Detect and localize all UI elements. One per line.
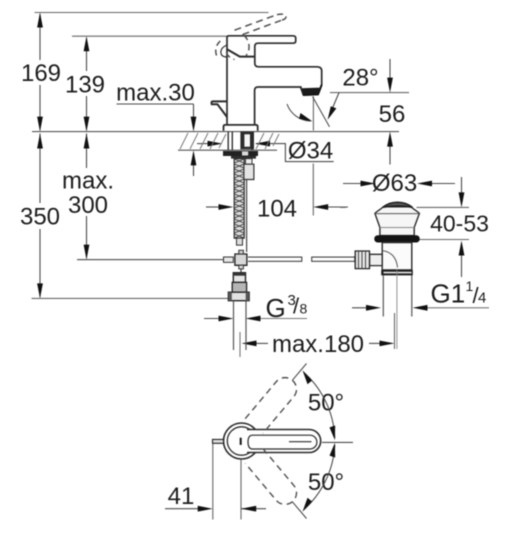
arm inner line [248,435,317,449]
svg-text:max.30: max.30 [116,80,195,107]
28deg leader diagonal [330,93,339,114]
nut shade left [228,292,231,301]
svg-text:8: 8 [300,301,308,317]
body-port intersection curve [382,251,397,268]
arrow max300 top [84,134,90,149]
threaded rod hatch [234,159,244,238]
hub inner circle [227,427,255,455]
joint screw top [239,250,244,254]
side port neck [370,254,383,265]
connector top cylinder [233,273,245,283]
arrow 50up-bottom [330,426,336,441]
horseshoe washer gap [242,152,248,156]
faucet pipe centerline lower ext [239,332,241,357]
arrow 104 left [219,204,234,210]
svg-text:350: 350 [20,204,60,231]
pop-up knob on left [211,101,227,117]
40-53 lower ref line [417,239,470,241]
arrow max30 top [191,117,197,132]
arrow 41 left [198,506,213,512]
41 ext line right [240,460,242,520]
arrow O34 left [208,141,223,147]
joint-connector stub [240,269,242,273]
supply pipe walls [234,301,247,350]
water stream vertical ref [312,96,314,130]
arrow 50low-bottom [303,498,313,512]
arrow 50low-top [330,443,336,458]
pop-up rod upper clamp [246,159,253,165]
arrow 350 top [37,134,43,149]
shank outline [228,132,252,151]
connector hex nut [228,292,249,301]
arm slot line [289,441,312,443]
arrow O34 right [255,141,270,147]
G 3/8 dim line [204,318,222,320]
horseshoe washer lower [231,156,256,159]
joint lower bit [239,265,244,269]
rod segment end caps [302,256,355,262]
svg-text:28°: 28° [342,65,378,92]
svg-text:139: 139 [65,72,105,99]
pop-up rod collar [244,164,254,179]
deck bottom line [178,149,277,151]
hub outer circle [224,423,260,459]
flange step line [380,227,414,229]
connector mid hatched [232,282,246,292]
dashed lever tip cap [277,14,286,20]
rod level line (max.300 lower ref) [77,259,233,261]
arrow O63 left [361,181,376,187]
ref line 139 upper reference [72,35,227,37]
56 dim vertical [389,59,391,82]
svg-text:56: 56 [379,101,406,128]
dim line 139/max300 vertical [86,38,88,71]
G 1 1/4 dim line [352,307,369,309]
rod thin left segment [77,259,233,261]
arrow G38 left [219,316,234,322]
arrow 40-53 bottom [459,241,465,256]
104 right ext vertical [312,164,314,216]
arrow 41 right [241,506,256,512]
arrow 40-53 top [459,192,465,207]
Ø63 dim line [343,183,364,185]
left pin [213,439,224,443]
escutcheon plate [224,125,258,131]
arrow max180 right [380,341,395,347]
arrow 139 bottom [84,117,90,132]
shank cartridge dark block [240,132,254,150]
threaded rod tip [237,238,243,245]
max.180 dim line [252,342,268,344]
svg-text:300: 300 [68,192,108,219]
rod collar left of joint [224,257,234,262]
connector top band [233,273,245,276]
41 dim line [165,508,201,510]
spout mouth dark fill [302,88,320,96]
arrow G38 right [246,316,261,322]
40-53 upper ref line [340,206,346,208]
svg-text:104: 104 [257,196,297,223]
horseshoe washer [223,151,258,156]
hub pin mark [240,438,242,445]
50 upper arc [304,372,335,438]
svg-text:4: 4 [478,290,486,307]
dashed arm lower [245,449,301,510]
threaded rod [234,159,244,239]
svg-text:G1: G1 [431,279,466,309]
datum deck top line [32,131,399,133]
arrow max180 left [242,341,257,347]
water stream line [313,97,330,127]
arrow max300 bottom [84,245,90,260]
ball joint block [235,254,247,265]
svg-text:Ø63: Ø63 [372,170,417,197]
drain centerline lower ext [394,313,396,349]
arrow 139 top [84,36,90,51]
dashed hub arc mid [244,35,250,56]
svg-text:max.180: max.180 [272,331,364,358]
rod cylinder segment 1 [248,257,302,261]
svg-text:40-53: 40-53 [430,211,489,237]
dashed lever top line [235,15,278,31]
drain centerline [396,270,398,349]
ref line top (169 upper reference) [35,12,269,14]
drain bottom flange [381,270,413,275]
pop-up rod wire [246,180,248,253]
28deg/56 top ref line [330,92,409,94]
svg-text:41: 41 [168,483,195,510]
arrow 350 bottom [37,283,43,298]
arrow 169 top [37,13,43,28]
dim line 169/350 vertical [39,14,41,60]
handle arm [247,430,321,453]
dashed lever bottom line [243,20,282,34]
max.30 underline + vertical [117,103,194,105]
350 lower ref line [32,297,229,299]
svg-text:169: 169 [21,60,61,87]
svg-text:Ø34: Ø34 [288,138,333,165]
shank cartridge slot [244,134,250,146]
arrow 56 bottom [387,132,393,147]
dashed hub fragment lower [227,54,235,60]
svg-text:G: G [266,293,286,323]
dashed arm upper [245,373,301,434]
28deg arc [287,104,311,121]
deck hatching [180,133,279,149]
dashed hub arc left [216,40,222,56]
50 lower arc [304,445,335,510]
plug lens cap [383,202,412,207]
arrow 28 arc [299,113,313,122]
lever hub bottom diagonal [227,49,255,56]
plug flange upper body [375,207,420,236]
hub left small curve [221,45,227,57]
arrow G114 left [366,305,381,311]
rod cylinder segment 2 [312,257,356,261]
drain body [382,243,412,271]
40-53 dim vertical [461,177,463,196]
arrow O63 right [417,181,432,187]
50 upper extension line [292,364,306,381]
svg-text:max.: max. [62,168,114,195]
arrow 104 right [313,204,328,210]
104 dim line [206,206,222,208]
side port knurled knob [355,251,369,269]
Ø34 dim + leader [197,143,213,145]
arrow 28 leader [328,106,337,120]
tailpipe walls [383,275,412,316]
arrow max30 bottom [191,150,197,165]
O-ring seal [374,235,419,242]
nut shade right [246,292,249,301]
arrow G114 right [413,305,428,311]
svg-text:50°: 50° [308,469,344,496]
arrow 169 bottom [37,117,43,132]
knob knurl lines [359,251,366,269]
flange rim line [375,213,419,215]
41 ext line left [212,444,214,520]
arrow 50up-top [303,370,313,384]
centerline right of arm [322,441,353,443]
faucet body outline [227,36,322,125]
flange highlight [384,272,412,274]
50 lower extension line [292,502,306,519]
arrow 56 top [387,78,393,93]
